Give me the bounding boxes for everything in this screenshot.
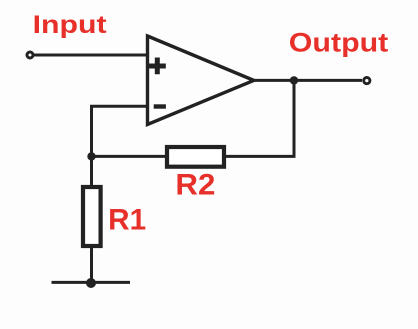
wire inverting input xyxy=(92,106,148,156)
wire junction to R1 xyxy=(90,156,93,186)
node junction output xyxy=(290,76,298,84)
ground xyxy=(52,281,131,284)
wire junction to R2 xyxy=(92,155,167,158)
wire R2 to output node xyxy=(226,80,294,156)
wire input to op-amp xyxy=(34,54,148,57)
svg-text:Input: Input xyxy=(33,11,108,39)
node Input terminal xyxy=(27,52,33,58)
resistor R2 xyxy=(167,147,224,167)
node junction feedback xyxy=(87,152,95,160)
resistor R1 xyxy=(83,187,101,246)
op-amp U1 xyxy=(148,36,254,125)
node Output terminal xyxy=(364,78,370,84)
wire op-amp output xyxy=(253,79,362,82)
wire R1 to ground xyxy=(90,246,93,283)
node junction ground xyxy=(86,278,96,288)
svg-text:R2: R2 xyxy=(175,168,215,201)
svg-text:Output: Output xyxy=(289,27,389,57)
svg-text:R1: R1 xyxy=(108,204,146,237)
